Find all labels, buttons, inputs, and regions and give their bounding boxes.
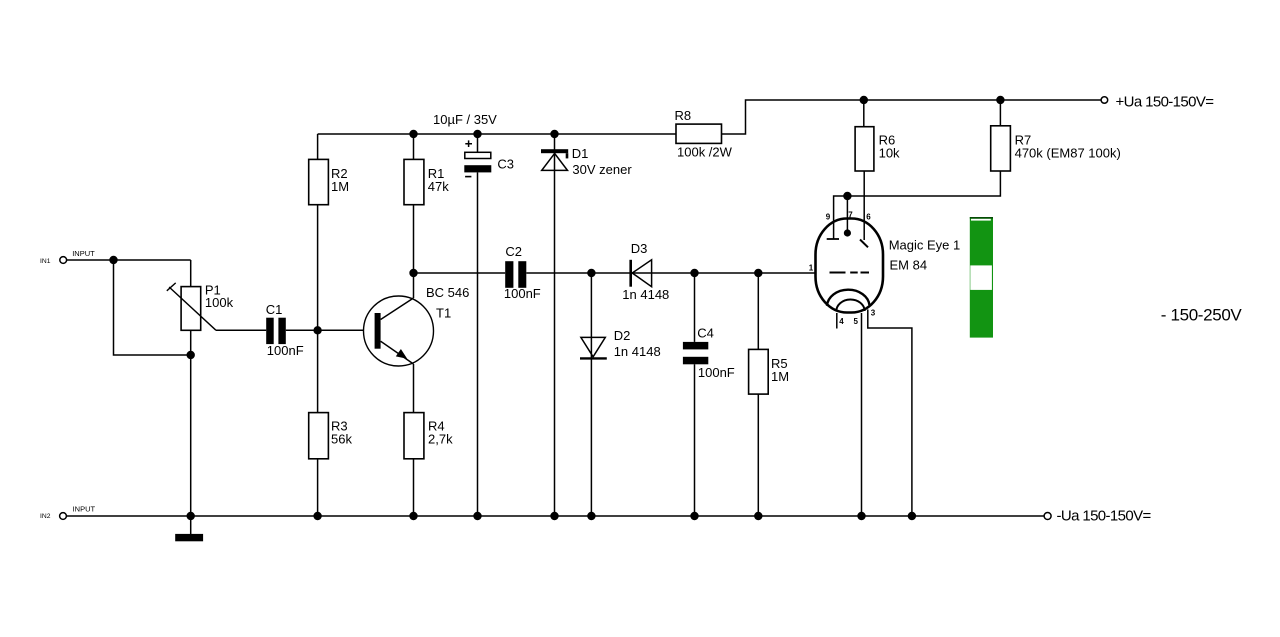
svg-text:56k: 56k <box>331 432 352 447</box>
node 35V rail / R1 <box>409 130 417 138</box>
label R4 value <box>428 419 453 447</box>
wire C3 bottom to ground rail <box>477 172 479 516</box>
label IN1 <box>40 249 95 265</box>
wire C1 to T1 base (node with R2/R3) <box>286 329 375 331</box>
svg-text:1M: 1M <box>331 179 349 194</box>
svg-text:C2: C2 <box>505 244 522 259</box>
node IN1 / P1 top <box>109 256 117 264</box>
svg-text:9: 9 <box>826 212 831 221</box>
ground <box>175 534 203 541</box>
wire P1 wiper to C1 <box>216 329 266 331</box>
svg-text:EM 84: EM 84 <box>890 258 928 273</box>
pin 7 <box>848 211 853 220</box>
svg-text:47k: 47k <box>428 179 449 194</box>
terminal IN2 <box>60 513 67 520</box>
capacitor C2 <box>505 261 526 288</box>
diode D2 <box>580 337 607 358</box>
wire R3 bottom lead <box>317 459 319 516</box>
tube display small arc <box>836 299 864 311</box>
resistor R2 <box>309 159 329 204</box>
wire P1 top lead <box>190 260 192 287</box>
wire P1 lower loop (left side) <box>114 260 191 355</box>
svg-text:T1: T1 <box>436 306 451 321</box>
node ground rail / C3 <box>473 512 481 520</box>
node ground rail / R3 <box>313 512 321 520</box>
wire C4 top lead <box>694 273 696 342</box>
wire T1 emitter to R4 top <box>413 364 415 413</box>
label R1 value <box>428 166 449 194</box>
label C3 <box>497 157 514 172</box>
svg-text:1: 1 <box>809 263 814 272</box>
wire ground stem <box>190 516 192 534</box>
node ground rail / P1 <box>187 512 195 520</box>
node P1 bottom <box>187 351 195 359</box>
terminal -Ua <box>1044 513 1051 520</box>
wire tube pin 4 stub <box>836 313 838 329</box>
pin 6 <box>866 212 871 221</box>
svg-text:30V zener: 30V zener <box>572 162 632 177</box>
pin 1 <box>809 263 814 272</box>
node ground rail / D1 <box>550 512 558 520</box>
label Magic Eye 1 EM 84 <box>889 238 961 273</box>
node 35V rail / D1 <box>550 130 558 138</box>
svg-text:100nF: 100nF <box>698 365 735 380</box>
tube pin 9 electrode bar <box>827 238 839 240</box>
label R5 value <box>771 356 789 384</box>
svg-text:INPUT: INPUT <box>72 249 95 258</box>
node 35V rail / C3 <box>473 130 481 138</box>
wire P1 bottom lead <box>190 330 192 355</box>
svg-text:INPUT: INPUT <box>73 505 96 514</box>
svg-text:D2: D2 <box>614 328 631 343</box>
label C4 value <box>697 326 735 381</box>
tube pin 6 target stroke <box>860 240 868 248</box>
label R2 value <box>331 166 349 194</box>
potentiometer P1 <box>167 283 216 330</box>
resistor R6 <box>855 127 874 171</box>
svg-text:C3: C3 <box>497 157 514 172</box>
wire tube pin 7 lead <box>846 196 848 233</box>
wire D2 top lead <box>590 273 592 516</box>
tube U1 EM84 envelope <box>816 219 884 313</box>
node ground rail / R4 <box>409 512 417 520</box>
wire R8 output to +Ua rail <box>722 100 1102 134</box>
resistor R1 <box>404 159 424 204</box>
node ground rail / D2 <box>587 512 595 520</box>
node D2 / signal row <box>587 269 595 277</box>
label R3 value <box>331 419 352 447</box>
svg-text:100nF: 100nF <box>267 343 304 358</box>
diode D1 zener <box>541 149 568 170</box>
svg-text:3: 3 <box>871 309 876 318</box>
label D1 value <box>572 146 633 177</box>
wire R4 bottom lead <box>413 459 415 516</box>
svg-text:6: 6 <box>866 212 871 221</box>
wire D1 top lead <box>554 134 556 516</box>
capacitor C4 <box>683 342 708 364</box>
resistor R3 <box>309 413 329 459</box>
diode D3 <box>631 260 652 287</box>
svg-text:10k: 10k <box>879 146 900 161</box>
wire tube pin 5 to ground rail <box>861 313 863 516</box>
wire C4 bottom to ground rail <box>694 364 696 516</box>
wire collector node to C2 <box>414 272 506 274</box>
resistor R7 <box>991 126 1011 171</box>
wire R1 top lead <box>413 134 415 159</box>
label heater voltage <box>1161 306 1243 325</box>
svg-text:IN1: IN1 <box>40 258 51 265</box>
label C2 value <box>504 244 541 301</box>
node +Ua rail / R6 <box>860 96 868 104</box>
svg-text:IN2: IN2 <box>40 513 51 520</box>
label IN2 <box>40 505 96 521</box>
label D2 value <box>614 328 661 359</box>
svg-text:- 150-250V: - 150-250V <box>1161 306 1243 325</box>
label R6 value <box>879 133 900 161</box>
wire 35V supply rail <box>318 133 676 135</box>
label D3 value <box>622 241 669 302</box>
svg-text:BC 546: BC 546 <box>426 285 469 300</box>
tube display large arc <box>827 290 870 306</box>
svg-text:R8: R8 <box>675 108 692 123</box>
node grid wire / pin 7 <box>843 192 851 200</box>
resistor R8 <box>676 124 722 143</box>
label R7 value <box>1015 133 1121 161</box>
node R5 / signal row <box>754 269 762 277</box>
wire R2 bottom to R3 top <box>317 205 319 413</box>
node pin 7 inner end <box>844 229 851 236</box>
svg-text:2,7k: 2,7k <box>428 432 453 447</box>
wire R6 bottom to tube pin 6 <box>863 171 865 240</box>
label C1 value <box>266 302 304 358</box>
label P1 value <box>205 283 234 310</box>
indicator green bar <box>970 217 993 338</box>
label R8 value <box>675 108 733 159</box>
wire R6 top lead <box>863 100 865 127</box>
wire bottom ground rail <box>66 515 1044 517</box>
node ground rail / tube pin 3 <box>908 512 916 520</box>
resistor R5 <box>749 349 769 394</box>
node ground rail / C4 <box>690 512 698 520</box>
tube grid dashes <box>830 272 870 274</box>
svg-text:10µF / 35V: 10µF / 35V <box>433 112 497 127</box>
svg-text:100k /2W: 100k /2W <box>677 144 733 159</box>
wire R5 bottom to ground rail <box>757 394 759 516</box>
svg-text:100nF: 100nF <box>504 286 541 301</box>
wire C2 to D3 <box>526 272 816 274</box>
wire tube pin 3 to ground rail <box>868 310 912 517</box>
svg-text:1n 4148: 1n 4148 <box>622 287 669 302</box>
wire R7 bottom to tube pins 9 and 7 <box>834 171 1001 239</box>
label 10uF / 35V <box>433 112 497 127</box>
svg-text:D3: D3 <box>631 241 648 256</box>
pin 5 <box>854 317 859 326</box>
resistor R4 <box>404 413 424 459</box>
capacitor C1 <box>266 318 286 344</box>
pin 4 <box>839 317 844 326</box>
label T1 BC546 <box>426 285 469 321</box>
label +Ua supply <box>1116 94 1215 111</box>
pin 3 <box>871 309 876 318</box>
node ground rail / R5 <box>754 512 762 520</box>
wire R2 top lead <box>317 134 319 159</box>
capacitor C3 electrolytic <box>464 140 491 176</box>
svg-text:Magic Eye 1: Magic Eye 1 <box>889 238 961 253</box>
svg-text:D1: D1 <box>572 146 589 161</box>
svg-text:470k (EM87 100k): 470k (EM87 100k) <box>1015 146 1121 161</box>
wire P1 junction down to ground rail <box>190 355 192 516</box>
node +Ua rail / R7 <box>996 96 1004 104</box>
svg-text:7: 7 <box>848 211 853 220</box>
label -Ua supply <box>1057 508 1152 525</box>
node T1 base / R2 / R3 <box>313 326 321 334</box>
svg-text:1n 4148: 1n 4148 <box>614 344 661 359</box>
node C4 / signal row <box>690 269 698 277</box>
svg-text:5: 5 <box>854 317 859 326</box>
wire R7 top lead <box>999 100 1001 126</box>
svg-text:1M: 1M <box>771 369 789 384</box>
svg-text:4: 4 <box>839 317 844 326</box>
node collector / C2 <box>409 269 417 277</box>
svg-text:+Ua 150-150V=: +Ua 150-150V= <box>1116 94 1215 111</box>
pin 9 <box>826 212 831 221</box>
wire R5 top lead <box>757 273 759 349</box>
node ground rail / tube pin 5 <box>857 512 865 520</box>
wire C3 top lead <box>477 134 479 152</box>
terminal IN1 <box>60 257 67 264</box>
svg-text:100k: 100k <box>205 295 234 310</box>
svg-text:-Ua 150-150V=: -Ua 150-150V= <box>1057 508 1152 525</box>
wire IN1 to P1 top <box>67 259 191 261</box>
wire R1 bottom to T1 collector <box>413 205 415 298</box>
svg-text:C4: C4 <box>697 326 714 341</box>
svg-text:C1: C1 <box>266 302 283 317</box>
terminal +Ua <box>1101 97 1108 104</box>
transistor Q1 BC546 <box>364 296 434 366</box>
